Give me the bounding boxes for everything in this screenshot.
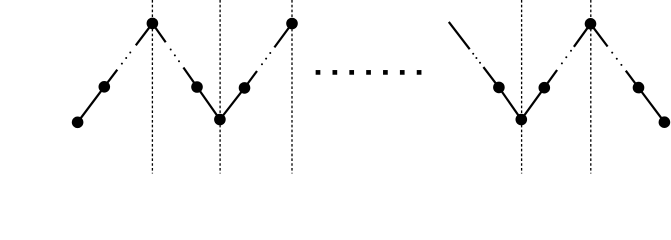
vertex A4 [239, 82, 251, 94]
ellipsis square 6 [400, 70, 405, 75]
vertex V1 [214, 114, 226, 126]
dashed guide line through V1 [219, 0, 221, 174]
ellipsis square 1 [316, 70, 321, 75]
vertex A2 [99, 81, 111, 93]
edge P1-V1 via A3 (solid-dotted-solid) [152, 23, 220, 119]
edge P3-B3 (solid-dotted-solid) [591, 24, 639, 88]
vertex P2 [286, 18, 298, 30]
vertex P3 [585, 18, 597, 30]
edge V2-B2 (solid) [521, 88, 544, 120]
dashed guide line through P1 [151, 0, 153, 174]
dashed guide line through V2 [521, 0, 523, 174]
vertex A3 [191, 81, 203, 93]
vertex P1 [147, 18, 159, 30]
dashed guide line through P2 [291, 0, 293, 174]
ellipsis square 3 [349, 70, 354, 75]
vertex B2 [539, 82, 551, 94]
ellipsis square 2 [333, 70, 338, 75]
dashed guide line through P3 [590, 0, 592, 174]
ellipsis square 5 [383, 70, 388, 75]
vertex B4 [659, 116, 671, 128]
vertex A1 [72, 117, 84, 129]
ellipsis square 4 [366, 70, 371, 75]
edge B3-B4 (solid) [639, 88, 665, 123]
edge A2-P1 (solid-dotted-solid) [104, 23, 152, 86]
edge A1-A2 (solid) [78, 87, 105, 123]
edge B2-P3 (solid-dotted-solid) [544, 24, 590, 88]
edge B1-V2 (solid) [499, 87, 521, 119]
vertex B3 [633, 82, 645, 94]
edge S-B1 (solid-dotted-solid) [449, 22, 499, 88]
edge V1-A4 (solid) [220, 88, 245, 120]
ellipsis square 7 [417, 70, 422, 75]
vertex V2 [516, 114, 528, 126]
edge A4-P2 (solid-dotted-solid) [245, 24, 293, 88]
vertex B1 [493, 82, 505, 94]
